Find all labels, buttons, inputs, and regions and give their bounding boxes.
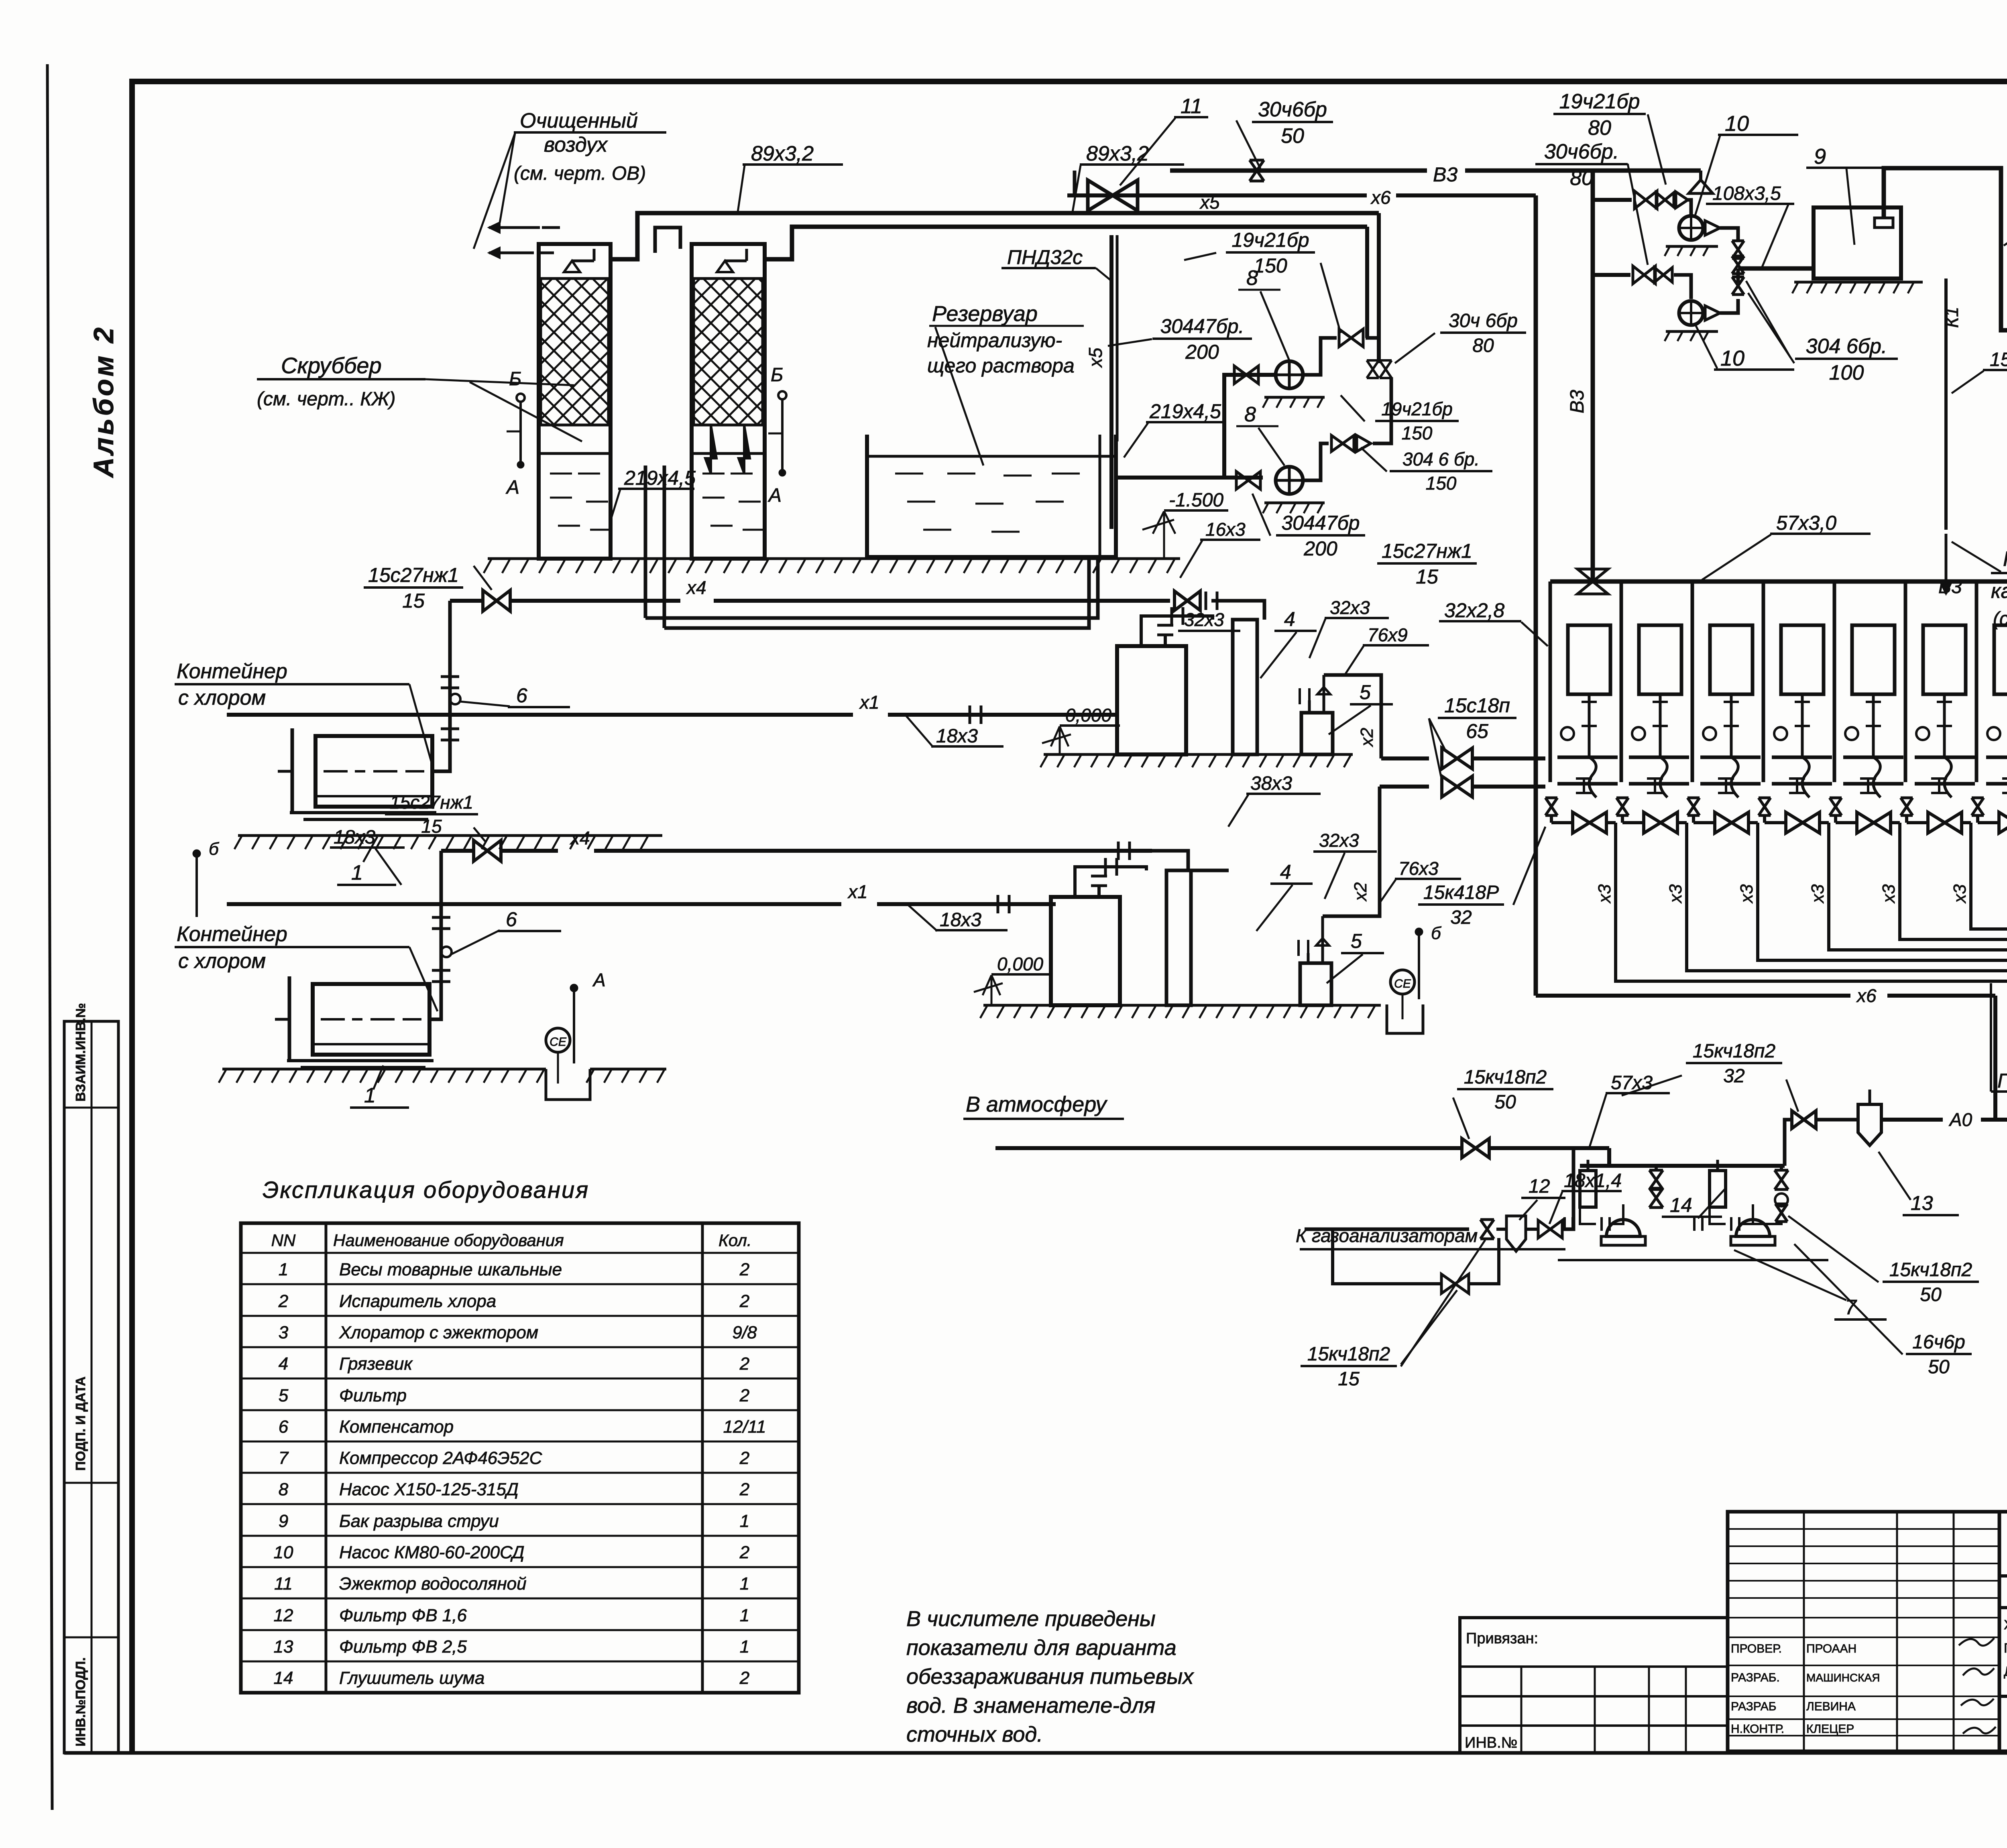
thin ground under compressors <box>1558 1259 1828 1261</box>
svg-text:9: 9 <box>1814 144 1826 169</box>
svg-text:КЛЕЦЕР: КЛЕЦЕР <box>1806 1722 1854 1736</box>
svg-text:В числителе приведены: В числителе приведены <box>906 1607 1156 1631</box>
svg-text:х3: х3 <box>1737 884 1757 904</box>
svg-text:18х1,4: 18х1,4 <box>1564 1170 1622 1191</box>
svg-text:150: 150 <box>1426 473 1457 494</box>
svg-text:10: 10 <box>1720 346 1744 370</box>
valves on manifold <box>1649 1170 1663 1189</box>
svg-text:2: 2 <box>739 1291 749 1311</box>
svg-text:219х4,5: 219х4,5 <box>1149 400 1221 423</box>
svg-text:-1.500: -1.500 <box>1169 490 1223 511</box>
svg-text:воздух: воздух <box>544 133 608 157</box>
svg-text:Контейнер: Контейнер <box>177 660 287 683</box>
svg-text:30ч6бр: 30ч6бр <box>1258 98 1327 121</box>
х6 vertical down <box>1534 195 1538 996</box>
svg-text:Фильтр: Фильтр <box>339 1386 407 1405</box>
svg-text:15к418Р: 15к418Р <box>1423 882 1499 903</box>
svg-text:1: 1 <box>351 861 363 884</box>
х1 upper line <box>227 713 853 717</box>
svg-text:11: 11 <box>1181 95 1202 118</box>
svg-text:Весы товарные шкальные: Весы товарные шкальные <box>339 1260 562 1279</box>
svg-text:32х3: 32х3 <box>1184 609 1224 630</box>
bank top manifold В3 <box>1550 579 2007 584</box>
svg-text:х3: х3 <box>1879 884 1899 904</box>
б symbol + СЕ near evap2 <box>1418 935 1420 999</box>
chlorinator unit 1 <box>1550 581 1610 797</box>
svg-text:В3: В3 <box>1567 390 1588 413</box>
svg-text:30ч6бр.: 30ч6бр. <box>1544 140 1619 163</box>
signatures <box>1959 1638 1994 1646</box>
pump discharges to х5 risers <box>1303 338 1337 375</box>
explication table grid <box>241 1223 799 1693</box>
svg-text:Резервуар: Резервуар <box>932 302 1038 326</box>
svg-text:80: 80 <box>1588 116 1611 140</box>
svg-text:15: 15 <box>402 590 425 612</box>
svg-text:В3: В3 <box>1433 163 1457 186</box>
svg-text:14: 14 <box>274 1668 293 1688</box>
svg-text:обеззараживания питьевых: обеззараживания питьевых <box>906 1665 1194 1689</box>
svg-text:50: 50 <box>1928 1356 1950 1378</box>
A needle right of container2 <box>573 991 575 1063</box>
bank water line 1 (dashed) <box>1557 756 2007 759</box>
shower nozzle scrubber 1 <box>564 261 580 272</box>
svg-text:(см. черт. ОВ): (см. черт. ОВ) <box>514 163 646 184</box>
container 1 riser <box>432 601 450 771</box>
svg-text:ПНД 50С: ПНД 50С <box>1997 1069 2007 1092</box>
svg-text:с хлором: с хлором <box>178 949 266 973</box>
svg-text:89х3,2: 89х3,2 <box>751 142 814 165</box>
filter 13 <box>1816 1118 1858 1122</box>
svg-text:Очищенный: Очищенный <box>520 109 638 132</box>
lower feed line <box>1380 785 1429 789</box>
svg-text:Б: Б <box>509 368 521 390</box>
svg-text:х2: х2 <box>1357 728 1377 747</box>
Б А gauge symbol right <box>778 391 786 399</box>
svg-text:Н.КОНТР.: Н.КОНТР. <box>1731 1722 1784 1736</box>
air vent triangle on В3 <box>1689 180 1713 193</box>
svg-text:18х3: 18х3 <box>936 726 978 747</box>
svg-text:ПИТЬЕВЫХ И СТОЧНЫХ ВОД ПРОИЗВО: ПИТЬЕВЫХ И СТОЧНЫХ ВОД ПРОИЗВО- <box>2004 1641 2007 1655</box>
svg-text:19ч21бр: 19ч21бр <box>1231 229 1309 251</box>
В3 vertical down to bank <box>1591 171 1595 581</box>
svg-text:РАЗРАБ: РАЗРАБ <box>1731 1700 1777 1713</box>
х5 valves small <box>1367 360 1379 378</box>
svg-text:Хлоратор с эжектором: Хлоратор с эжектором <box>339 1323 538 1342</box>
svg-text:57х3: 57х3 <box>1611 1072 1653 1094</box>
svg-text:6: 6 <box>279 1417 289 1437</box>
svg-text:80: 80 <box>1570 167 1593 190</box>
svg-text:А: А <box>505 477 519 498</box>
svg-text:Компенсатор: Компенсатор <box>339 1417 454 1437</box>
svg-text:2: 2 <box>739 1386 749 1405</box>
svg-text:30ч 6бр: 30ч 6бр <box>1449 310 1518 331</box>
pump 8 lower <box>1236 472 1260 489</box>
svg-text:15с18п: 15с18п <box>1444 694 1510 717</box>
svg-text:219х4,5: 219х4,5 <box>624 467 696 489</box>
svg-text:3: 3 <box>279 1323 289 1342</box>
svg-text:ПРОВЕР.: ПРОВЕР. <box>1731 1642 1782 1655</box>
pipe from scrubber tops (89x3.2 air line) <box>611 213 1379 259</box>
svg-text:32: 32 <box>1723 1065 1744 1087</box>
svg-text:1: 1 <box>740 1511 749 1531</box>
compressor manifold <box>1607 1148 1611 1166</box>
svg-text:2: 2 <box>739 1543 749 1562</box>
svg-text:200: 200 <box>1185 341 1219 363</box>
svg-text:100: 100 <box>1829 361 1864 384</box>
svg-text:9: 9 <box>279 1511 288 1531</box>
svg-text:х4: х4 <box>570 827 590 848</box>
svg-text:50: 50 <box>1281 124 1304 148</box>
svg-text:15: 15 <box>421 816 442 837</box>
connection pipes evap <box>1075 867 1146 897</box>
svg-text:А: А <box>592 970 606 990</box>
svg-text:ИНВ.№ПОДЛ.: ИНВ.№ПОДЛ. <box>73 1657 88 1746</box>
привязан box <box>1460 1618 1728 1753</box>
svg-text:ИНВ.№: ИНВ.№ <box>1465 1734 1517 1751</box>
svg-text:32х3: 32х3 <box>1319 830 1359 851</box>
В3 main line <box>1170 169 1427 173</box>
svg-text:Эжектор водосоляной: Эжектор водосоляной <box>339 1574 527 1594</box>
svg-text:13: 13 <box>274 1637 293 1657</box>
pump 10 lower branch <box>1593 273 1630 277</box>
svg-text:57х3,0: 57х3,0 <box>1776 512 1836 534</box>
svg-text:А0: А0 <box>1948 1109 1972 1130</box>
svg-text:х6: х6 <box>1856 985 1877 1006</box>
svg-text:4: 4 <box>1280 861 1291 883</box>
svg-text:ПОДП. И ДАТА: ПОДП. И ДАТА <box>73 1376 88 1471</box>
svg-text:вод. В знаменателе-для: вод. В знаменателе-для <box>906 1693 1155 1718</box>
svg-text:х3: х3 <box>1950 884 1970 904</box>
sheet outer edge line left <box>47 64 52 1810</box>
title block rows <box>1999 1574 2007 1578</box>
х1 lower line <box>227 902 841 906</box>
svg-text:1: 1 <box>279 1260 288 1279</box>
svg-text:2: 2 <box>278 1291 288 1311</box>
svg-text:2: 2 <box>739 1448 749 1468</box>
svg-text:ВЗАИМ.ИНВ.№: ВЗАИМ.ИНВ.№ <box>73 1003 88 1102</box>
chlorinator unit 5 <box>1834 581 1895 797</box>
svg-text:12: 12 <box>274 1606 293 1625</box>
svg-text:х3: х3 <box>1595 884 1614 904</box>
svg-text:сточных вод.: сточных вод. <box>906 1722 1043 1746</box>
svg-text:МАШИНСКАЯ: МАШИНСКАЯ <box>1806 1671 1880 1684</box>
svg-text:15с27нж1: 15с27нж1 <box>1382 540 1472 562</box>
evaporator 2 <box>1051 897 1120 1005</box>
svg-text:Б: Б <box>771 364 783 386</box>
svg-text:11: 11 <box>274 1574 293 1594</box>
chlorinator unit 7 <box>1976 581 2007 797</box>
chlorinator unit 4 <box>1763 581 1824 797</box>
svg-text:х1: х1 <box>847 881 868 902</box>
svg-text:30447бр.: 30447бр. <box>1160 315 1244 337</box>
svg-text:15кч18п2: 15кч18п2 <box>1307 1344 1390 1365</box>
svg-text:80: 80 <box>1472 335 1494 356</box>
unit bottom valves <box>1545 798 1557 815</box>
svg-text:показатели для варианта: показатели для варианта <box>906 1636 1177 1660</box>
svg-text:6: 6 <box>516 684 527 707</box>
second air line <box>765 227 1367 259</box>
line valves to tank9 <box>1738 266 1814 271</box>
svg-text:х6: х6 <box>1370 187 1391 208</box>
svg-text:ПРОААН: ПРОААН <box>1806 1642 1856 1655</box>
х6 main line <box>1067 193 1367 197</box>
svg-text:В атмосферу: В атмосферу <box>966 1092 1107 1116</box>
evaporator 2 <box>1117 646 1186 754</box>
pump 10 upper <box>1679 216 1703 240</box>
reservoir tank <box>867 435 1116 557</box>
pump 10 lower <box>1679 301 1703 325</box>
svg-text:5: 5 <box>279 1386 289 1405</box>
svg-text:Грязевик: Грязевик <box>339 1354 413 1374</box>
incoming air dashed arrows <box>489 226 540 229</box>
step pipe between scrubbers <box>655 228 680 253</box>
svg-text:б: б <box>1431 923 1442 943</box>
pit with CE circle near container 2 <box>546 1069 590 1100</box>
svg-text:38х3: 38х3 <box>1250 773 1292 794</box>
scrubber 1 <box>539 244 611 559</box>
svg-text:10: 10 <box>274 1543 293 1562</box>
svg-text:19ч21бр: 19ч21бр <box>1381 398 1453 419</box>
А0 line <box>1881 1118 1943 1122</box>
б symbol between containers <box>195 857 198 917</box>
svg-text:Кол.: Кол. <box>719 1231 752 1250</box>
svg-text:1: 1 <box>740 1637 749 1657</box>
down arrows in scrubber2 <box>705 425 750 474</box>
tank 9 <box>1814 207 1901 279</box>
svg-text:х3: х3 <box>1808 884 1828 904</box>
discharge valves column <box>1720 228 1738 241</box>
svg-text:6: 6 <box>506 908 517 931</box>
svg-text:2: 2 <box>739 1260 749 1279</box>
svg-text:16х3: 16х3 <box>1205 519 1246 540</box>
svg-text:304 6бр.: 304 6бр. <box>1806 335 1887 358</box>
х6 bottom line <box>1536 994 1850 998</box>
svg-text:Насос КМ80-60-200СД: Насос КМ80-60-200СД <box>339 1543 524 1562</box>
valve before pump8 upper <box>1234 366 1258 384</box>
svg-text:15с27нж1: 15с27нж1 <box>390 792 473 813</box>
svg-text:15кч18п2: 15кч18п2 <box>1693 1041 1775 1062</box>
svg-text:ПНД32с: ПНД32с <box>1007 246 1083 268</box>
svg-text:32: 32 <box>1450 907 1472 928</box>
svg-text:15: 15 <box>1416 565 1438 588</box>
svg-text:30447бр: 30447бр <box>1282 512 1360 534</box>
tank9 outlet up and over <box>1884 168 2007 330</box>
svg-text:ХЛОРАТОРНАЯ ДЛЯ ОБЕЗЗАРАЖИВАНИ: ХЛОРАТОРНАЯ ДЛЯ ОБЕЗЗАРАЖИВАНИЯ <box>2004 1617 2007 1632</box>
svg-text:х3: х3 <box>1666 884 1685 904</box>
connection pipes evap <box>1141 616 1213 646</box>
svg-text:х2: х2 <box>1351 882 1370 902</box>
scrubber drain pipes <box>644 466 647 618</box>
pump 8 upper <box>1276 361 1303 388</box>
svg-text:16ч6р: 16ч6р <box>1912 1332 1965 1353</box>
svg-text:б: б <box>209 839 220 859</box>
svg-text:х5: х5 <box>1085 348 1106 368</box>
svg-text:15с27нж1: 15с27нж1 <box>368 564 459 586</box>
svg-text:4: 4 <box>1284 608 1295 630</box>
svg-text:19ч21бр: 19ч21бр <box>1559 90 1640 113</box>
svg-text:Экспликация оборудования: Экспликация оборудования <box>263 1177 589 1203</box>
valve X on В3 <box>1250 160 1264 181</box>
svg-text:12: 12 <box>1529 1176 1550 1197</box>
svg-text:(см. черт.. КЖ): (см. черт.. КЖ) <box>257 388 396 410</box>
svg-text:Наименование оборудования: Наименование оборудования <box>333 1231 564 1250</box>
chlorinator unit 2 <box>1621 581 1681 797</box>
under-ground drain lines to reservoir <box>645 559 1098 618</box>
svg-text:32х3: 32х3 <box>1330 597 1370 618</box>
svg-text:Бак разрыва струи: Бак разрыва струи <box>339 1511 499 1531</box>
svg-text:15: 15 <box>1338 1368 1360 1390</box>
svg-text:15кч18п2: 15кч18п2 <box>1464 1067 1547 1088</box>
staff table <box>1728 1512 1999 1751</box>
svg-text:Перелив в бытовую: Перелив в бытовую <box>2003 547 2007 571</box>
svg-text:5: 5 <box>1351 930 1362 952</box>
upper feed line х2 <box>1381 756 1429 760</box>
svg-text:4: 4 <box>279 1354 288 1374</box>
svg-text:К1: К1 <box>1941 307 1962 328</box>
svg-text:нейтрализую-: нейтрализую- <box>927 329 1062 352</box>
dirt trap 4 <box>1166 870 1191 1005</box>
svg-text:200: 200 <box>1303 537 1337 560</box>
compressors 7 <box>1580 1171 1596 1207</box>
Б А gauge symbol left <box>517 394 525 402</box>
svg-text:0,000: 0,000 <box>1065 705 1112 726</box>
frame bottom line <box>64 1751 2007 1755</box>
svg-text:Скруббер: Скруббер <box>281 353 382 378</box>
svg-text:50: 50 <box>1920 1284 1942 1305</box>
svg-text:150: 150 <box>1402 423 1433 443</box>
svg-text:108х3,5: 108х3,5 <box>1712 183 1781 204</box>
svg-text:Привязан:: Привязан: <box>1466 1630 1538 1647</box>
svg-text:Фильтр ФВ 2,5: Фильтр ФВ 2,5 <box>339 1637 467 1657</box>
svg-text:7: 7 <box>279 1448 289 1468</box>
х5 vertical to reservoir <box>1109 235 1113 529</box>
svg-text:14: 14 <box>1670 1194 1692 1216</box>
container 2 riser <box>429 851 441 1019</box>
left stamp strip <box>64 1021 118 1753</box>
svg-text:с хлором: с хлором <box>178 686 266 710</box>
svg-text:76х3: 76х3 <box>1398 858 1439 879</box>
svg-text:2: 2 <box>739 1354 749 1374</box>
svg-text:76х9: 76х9 <box>1368 624 1408 645</box>
svg-text:18х3: 18х3 <box>334 827 375 848</box>
svg-text:18х3: 18х3 <box>940 909 981 931</box>
svg-text:NN: NN <box>271 1231 296 1250</box>
svg-text:А: А <box>767 485 782 506</box>
branch to pump 10 upper <box>1593 198 1632 202</box>
svg-text:159х 4,0: 159х 4,0 <box>1990 349 2007 370</box>
svg-text:15кч18п2: 15кч18п2 <box>1889 1259 1972 1281</box>
chlorinator unit 3 <box>1692 581 1753 797</box>
svg-text:12/11: 12/11 <box>723 1417 766 1437</box>
bypass loop <box>1333 1229 1441 1284</box>
svg-text:8: 8 <box>1244 403 1256 426</box>
svg-text:Компрессор 2АФ46Э52С: Компрессор 2АФ46Э52С <box>339 1448 543 1468</box>
filter 5 group1 <box>1301 713 1333 754</box>
К1 drain <box>1944 279 1948 530</box>
х3 drop lines to bundle <box>1616 835 2007 981</box>
scrubber 2 <box>692 244 765 559</box>
svg-text:2: 2 <box>739 1668 749 1688</box>
suction line reservoir to pumps <box>1116 476 1263 480</box>
dirt trap 4 <box>1233 620 1257 754</box>
svg-text:150: 150 <box>1254 254 1287 277</box>
svg-text:Альбом 2: Альбом 2 <box>88 325 119 478</box>
title block outer <box>1999 1512 2007 1751</box>
svg-text:5: 5 <box>1360 681 1371 703</box>
svg-text:Насос Х150-125-315Д: Насос Х150-125-315Д <box>339 1480 519 1499</box>
svg-text:10: 10 <box>1725 112 1749 136</box>
svg-text:х4: х4 <box>686 577 706 598</box>
svg-text:Глушитель шума: Глушитель шума <box>339 1668 484 1688</box>
svg-text:СЕ: СЕ <box>550 1035 567 1049</box>
svg-text:Фильтр ФВ 1,6: Фильтр ФВ 1,6 <box>339 1606 467 1625</box>
svg-text:1: 1 <box>740 1606 749 1625</box>
container 1 <box>316 736 432 807</box>
svg-text:ДИТЕЛЬНОСТЬЮ 50КГ ХЛОРА В ЧАС.: ДИТЕЛЬНОСТЬЮ 50КГ ХЛОРА В ЧАС. <box>2004 1664 2007 1679</box>
svg-text:32х2,8: 32х2,8 <box>1444 599 1504 622</box>
svg-text:8: 8 <box>279 1480 289 1499</box>
svg-text:13: 13 <box>1911 1192 1933 1214</box>
bank water line 2 (dashed) <box>1557 782 2007 786</box>
svg-text:304 6 бр.: 304 6 бр. <box>1402 449 1480 470</box>
container 2 <box>313 984 429 1055</box>
svg-text:0,000: 0,000 <box>997 953 1044 974</box>
bypass valve 11 <box>1073 171 1077 195</box>
svg-text:50: 50 <box>1494 1092 1516 1113</box>
chlorinator unit 6 <box>1905 581 1966 797</box>
svg-text:65: 65 <box>1466 720 1488 742</box>
svg-text:СЕ: СЕ <box>1394 977 1411 990</box>
svg-text:х1: х1 <box>859 692 879 713</box>
svg-text:Испаритель хлора: Испаритель хлора <box>339 1291 496 1311</box>
ground hatch under scrubbers and reservoir <box>488 557 1180 560</box>
svg-text:1: 1 <box>740 1574 749 1594</box>
shower nozzle scrubber 2 <box>717 261 733 272</box>
svg-text:В3: В3 <box>1938 576 1962 598</box>
svg-text:9/8: 9/8 <box>732 1323 757 1342</box>
svg-text:2: 2 <box>739 1480 749 1499</box>
svg-text:ЛЕВИНА: ЛЕВИНА <box>1806 1700 1856 1713</box>
svg-text:РАЗРАБ.: РАЗРАБ. <box>1731 1671 1780 1684</box>
filter 5 group2 <box>1300 963 1331 1005</box>
svg-text:Контейнер: Контейнер <box>177 923 287 946</box>
